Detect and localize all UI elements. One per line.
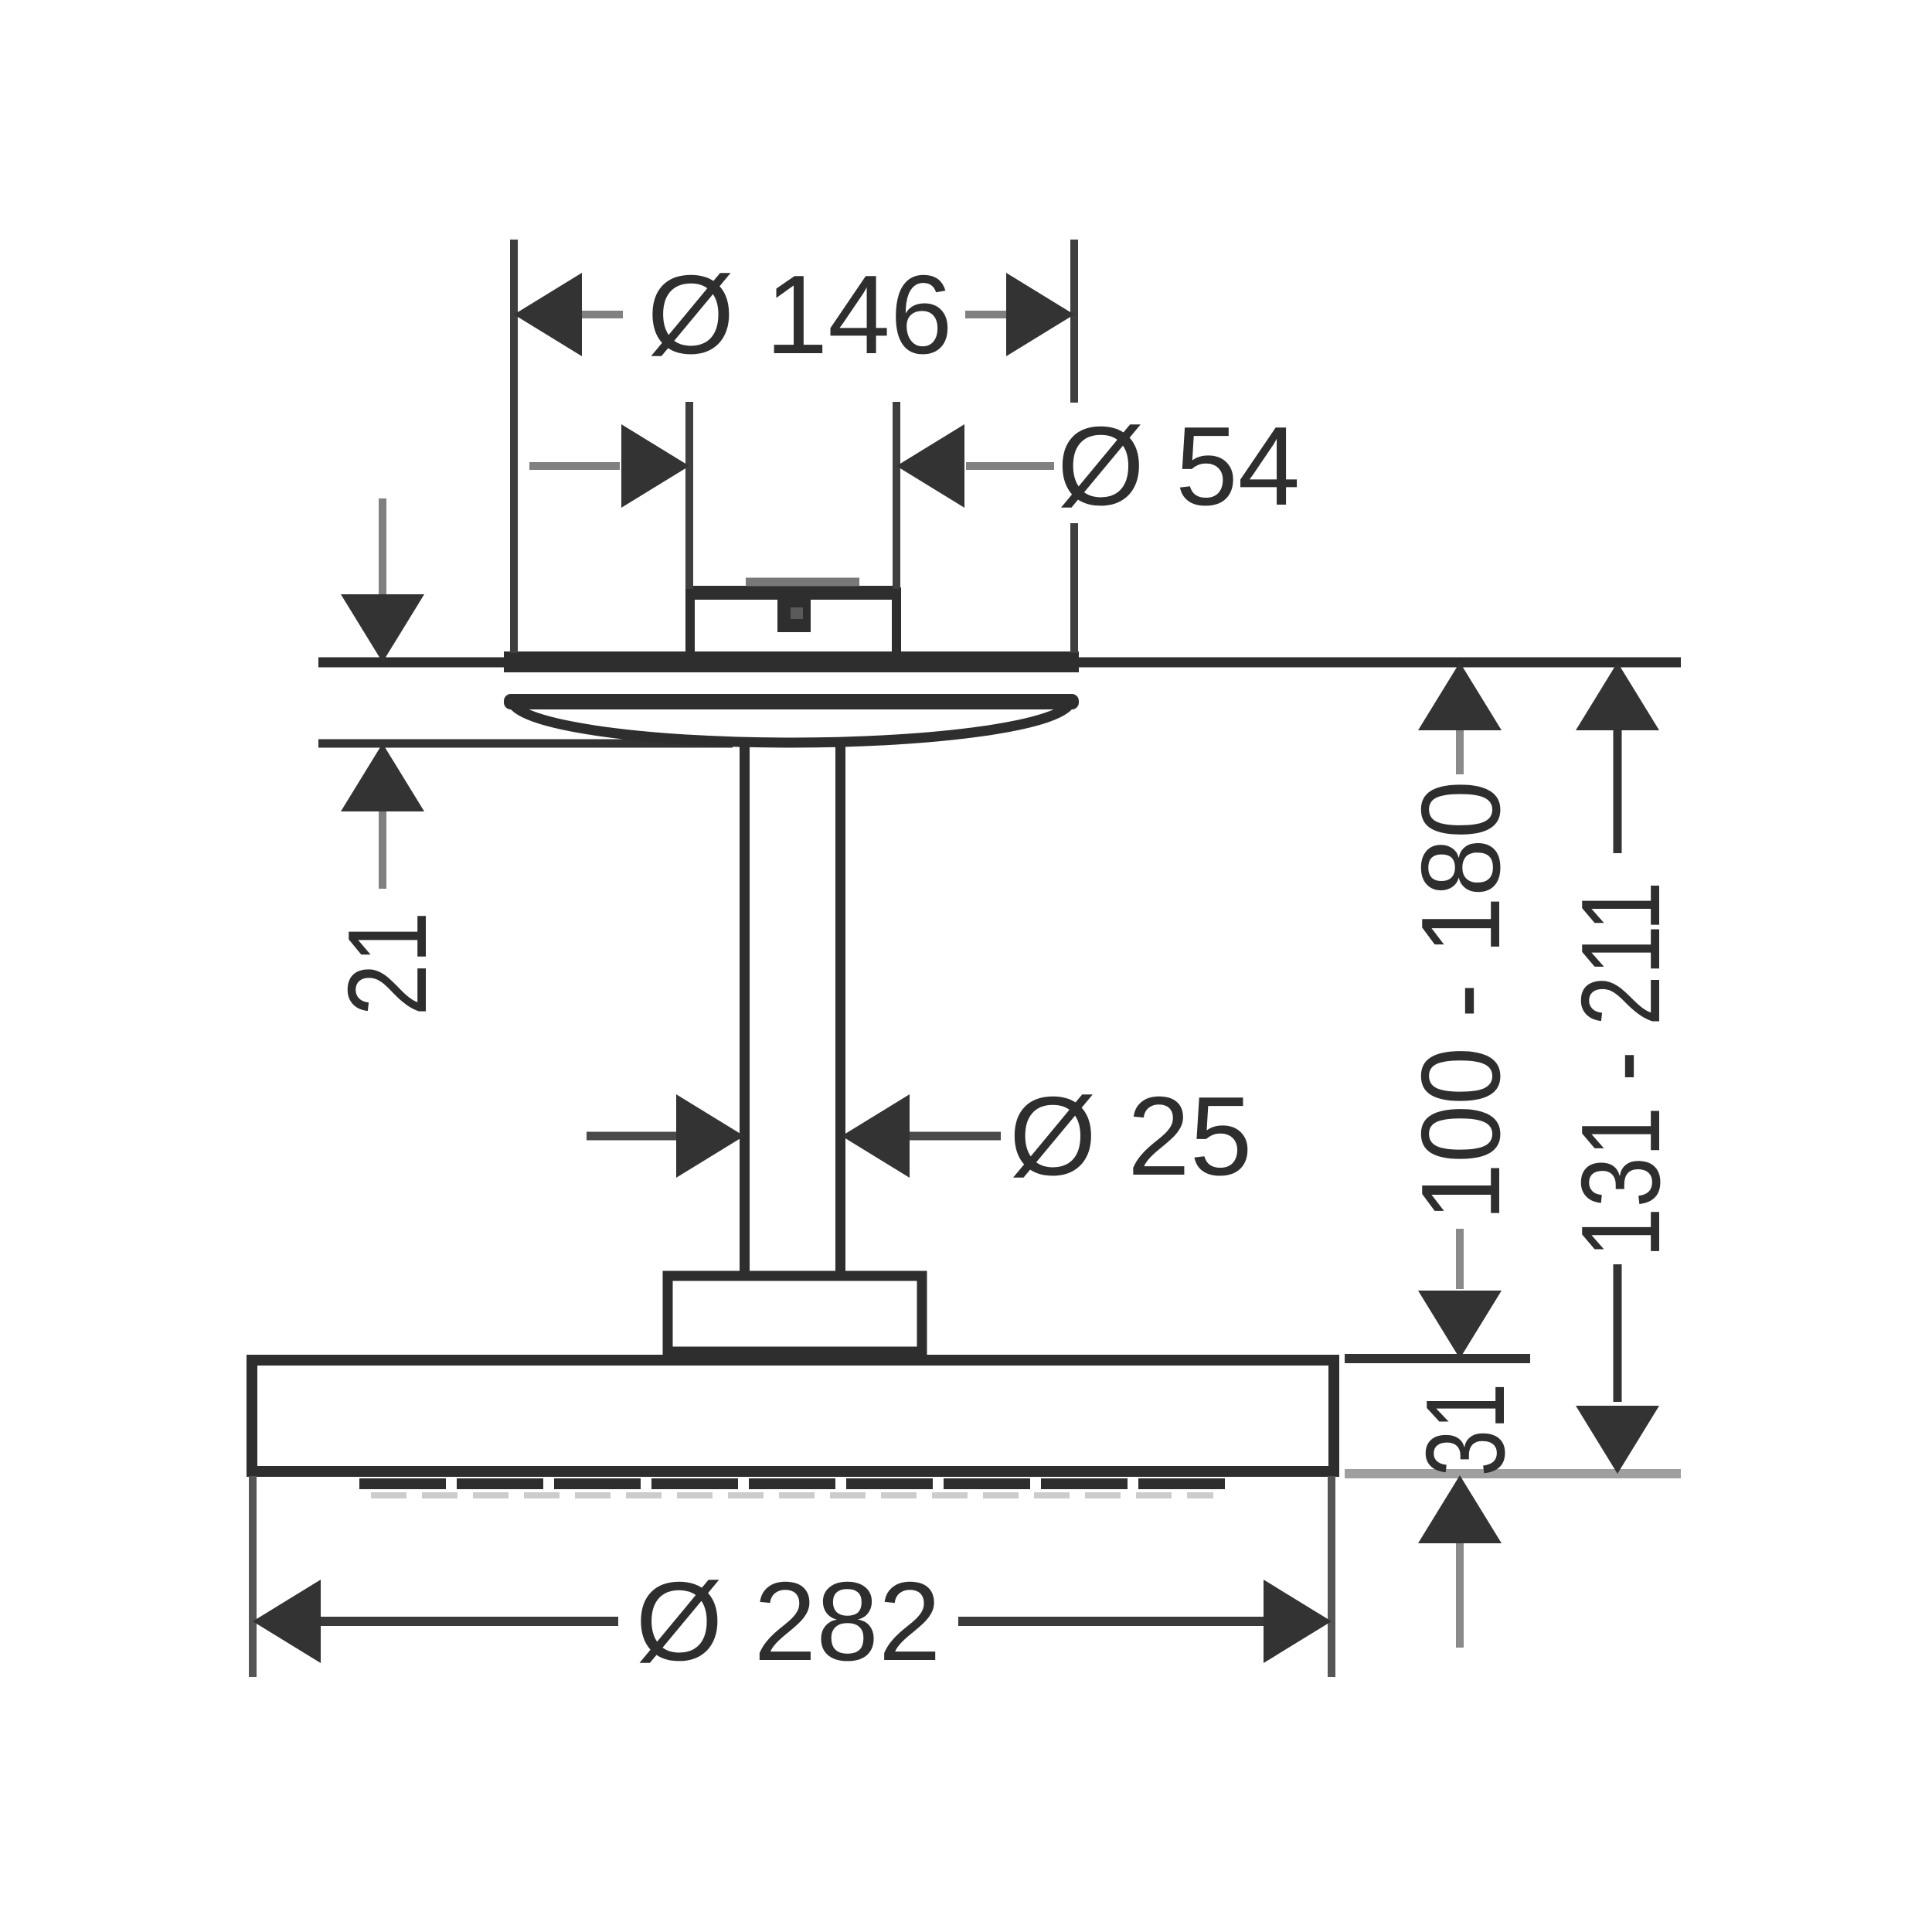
dimension 131 - 211 [1558,662,1683,1474]
svg-text:31: 31 [1403,1383,1529,1477]
dimension Ø25 (pipe) [587,1073,1252,1199]
right reference line B (disc bottom level) [1345,1469,1681,1478]
dimension 31 (disc height) [1403,1383,1529,1648]
connector box on flange (ceiling connector) [688,582,896,656]
flange skirt arc [512,700,1071,743]
extension line outer right (Ø146), broken behind Ø54 text [1070,240,1078,653]
flange lower reference line (21 mm) [318,740,733,748]
svg-text:Ø 25: Ø 25 [1009,1073,1252,1199]
svg-text:Ø 146: Ø 146 [648,252,953,377]
ceiling line [318,658,1681,668]
dimension 100 - 180 [1397,662,1523,1359]
svg-text:Ø 282: Ø 282 [636,1559,941,1684]
right reference line A (disc top level) [1345,1354,1530,1363]
extension line outer left (Ø146) [510,240,518,653]
svg-text:Ø 54: Ø 54 [1057,403,1300,529]
svg-text:100 - 180: 100 - 180 [1397,781,1523,1221]
dimension Ø146 [514,252,1074,377]
dimension Ø54 [529,403,1300,529]
svg-text:131 - 211: 131 - 211 [1558,881,1683,1258]
dimension Ø282 (disc) [253,1476,1332,1684]
pipe [745,739,841,1277]
dimension 21 (left) [325,498,450,1016]
extension line inner right (Ø54) [893,402,900,589]
pipe connector block [668,1276,922,1352]
flange bottom edge [504,694,1079,709]
flange interior [509,672,1074,694]
flange top bar [504,651,1079,672]
spray face dashed line [359,1484,1229,1495]
shower head disc [252,1360,1334,1471]
svg-text:21: 21 [325,911,450,1015]
extension line inner left (Ø54) [685,402,693,589]
